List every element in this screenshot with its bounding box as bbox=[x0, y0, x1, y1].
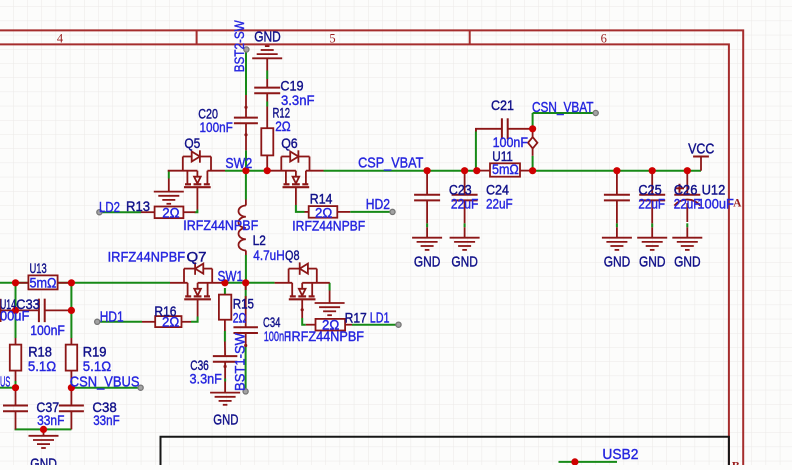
svg-text:GND: GND bbox=[604, 254, 631, 270]
Q5 gate pin bbox=[196, 187, 198, 209]
svg-text:100nF: 100nF bbox=[264, 329, 290, 344]
svg-text:Q6: Q6 bbox=[281, 136, 298, 151]
wire CSN_VBAT vertical bbox=[532, 113, 534, 126]
wire R13 to Q5 gate corner bbox=[195, 210, 198, 213]
svg-text:R13: R13 bbox=[126, 199, 150, 214]
svg-text:US: US bbox=[0, 375, 10, 391]
junction dot C33 left bbox=[12, 307, 19, 314]
Q8 gate pin end dot bbox=[301, 308, 304, 311]
svg-text:4: 4 bbox=[57, 31, 64, 45]
ground symbol under C23 bbox=[412, 237, 442, 239]
svg-text:C34: C34 bbox=[263, 315, 281, 330]
wire U13 left vertical bbox=[15, 283, 17, 338]
svg-text:4.7uH: 4.7uH bbox=[253, 248, 284, 263]
C20 pin end dot bbox=[244, 106, 247, 109]
svg-text:Q5: Q5 bbox=[184, 136, 200, 151]
svg-text:6: 6 bbox=[601, 31, 607, 45]
wire CSN after U11 to VCC corner bbox=[531, 170, 701, 172]
wire C21 left vertical bbox=[475, 132, 477, 171]
svg-text:LD2: LD2 bbox=[99, 200, 120, 216]
capacitor C34 symbol bbox=[245, 283, 247, 290]
svg-text:C19: C19 bbox=[280, 78, 303, 93]
svg-text:GND: GND bbox=[451, 254, 478, 270]
wire C20 lower dash bbox=[245, 150, 247, 170]
capacitor C25 symbol bbox=[616, 171, 618, 195]
svg-text:2Ω: 2Ω bbox=[322, 318, 339, 333]
C36 pin end dot bbox=[224, 365, 227, 368]
svg-text:100nF: 100nF bbox=[493, 135, 528, 150]
wire C19 to R12 dash bbox=[266, 102, 268, 107]
wire C26 dash bbox=[651, 223, 653, 227]
wire Q8 gate corner to R17 bbox=[302, 318, 306, 325]
junction dot C21 right bbox=[529, 125, 536, 132]
ground symbol under C36 bbox=[224, 382, 226, 393]
wire HD1 to R16 bbox=[97, 321, 142, 323]
junction dot CSP at C24 bbox=[461, 167, 468, 174]
svg-text:Q7: Q7 bbox=[187, 250, 207, 265]
svg-text:C25: C25 bbox=[638, 182, 661, 197]
wire Q5 gate to ground bbox=[168, 171, 170, 179]
svg-text:C23: C23 bbox=[449, 182, 472, 197]
junction dot VBUS left bbox=[12, 384, 19, 391]
svg-text:L2: L2 bbox=[253, 233, 266, 248]
ground symbol under C24 bbox=[450, 237, 480, 239]
wire SW1 left from U13 bbox=[0, 282, 170, 284]
svg-text:CSN_VBAT: CSN_VBAT bbox=[532, 100, 594, 116]
junction dot at C26 bbox=[649, 167, 656, 174]
resistor R18 symbol bbox=[15, 338, 17, 345]
current sense diamond CSN_VBAT bbox=[532, 129, 534, 137]
svg-text:2Ω: 2Ω bbox=[162, 315, 179, 330]
junction dot bottom ground bbox=[40, 426, 47, 433]
svg-text:R15: R15 bbox=[233, 297, 254, 312]
resistor R17 symbol bbox=[306, 324, 316, 326]
svg-text:BST2-SW: BST2-SW bbox=[231, 20, 247, 73]
junction dot CSP at C21 bbox=[473, 167, 480, 174]
svg-text:C26: C26 bbox=[674, 182, 698, 197]
svg-text:22uF: 22uF bbox=[486, 197, 513, 212]
wire C23 dash bbox=[426, 223, 428, 227]
wire R15 to C36 bbox=[224, 331, 226, 342]
wire BST2-SW vertical bbox=[245, 52, 247, 95]
transistor Q7 IRFZ44NPBF mirrored bbox=[198, 282, 226, 284]
ground symbol at Q5 gate bbox=[168, 179, 170, 192]
svg-text:22uF: 22uF bbox=[451, 197, 479, 212]
wire CSP_VBAT horizontal bbox=[324, 170, 479, 172]
ground flag GND top inverted bbox=[252, 57, 282, 59]
capacitor C33 symbol bbox=[0, 309, 39, 311]
port dot CSN_VBAT bbox=[593, 110, 598, 115]
junction dot SW2 at R12 bbox=[264, 167, 271, 174]
svg-text:LD1: LD1 bbox=[370, 311, 390, 327]
junction dot C33 right bbox=[68, 307, 75, 314]
junction dot USB2 bbox=[571, 458, 578, 465]
svg-text:IRFZ44NPBF: IRFZ44NPBF bbox=[183, 218, 258, 233]
resistor R19 symbol bbox=[70, 338, 72, 345]
svg-text:IRFZ44NPBF: IRFZ44NPBF bbox=[108, 250, 186, 265]
capacitor C36 symbol bbox=[224, 342, 226, 357]
wire U12 dash bbox=[686, 223, 688, 227]
junction dot at U12 VCC bbox=[684, 167, 691, 174]
junction dot CSN_VBUS bbox=[68, 384, 75, 391]
svg-text:5.1Ω: 5.1Ω bbox=[83, 359, 111, 374]
wire U13 right vertical bbox=[70, 283, 72, 338]
wire Q8 source to ground dash bbox=[329, 283, 331, 291]
ground symbol at Q8 source bbox=[329, 291, 331, 304]
capacitor C24 symbol bbox=[464, 171, 466, 195]
resistor R16 symbol bbox=[142, 321, 155, 323]
resistor R14 symbol bbox=[305, 211, 309, 213]
U12 plus sign bbox=[675, 187, 684, 189]
svg-text:00uF: 00uF bbox=[0, 309, 29, 324]
svg-text:Q8: Q8 bbox=[285, 248, 300, 263]
resistor R15 symbol bbox=[224, 294, 226, 296]
wire SW1 to R15 dash bbox=[224, 288, 226, 295]
svg-text:VCC: VCC bbox=[688, 141, 714, 157]
wire C37 C38 to ground bbox=[15, 428, 72, 430]
resistor R12 symbol bbox=[266, 107, 268, 128]
svg-text:2Ω: 2Ω bbox=[162, 206, 179, 221]
polarized capacitor U12 symbol bbox=[686, 171, 688, 195]
port dot BST1-SW bbox=[243, 389, 248, 394]
ground symbol under C25 bbox=[602, 237, 632, 239]
wire SW2 node horizontal bbox=[225, 170, 266, 172]
junction dot CSP at CSN diamond bbox=[529, 167, 536, 174]
junction dot SW2 at C20 bbox=[242, 167, 249, 174]
wire LD2 to R13 bbox=[99, 211, 141, 213]
port dot CSN_VBUS bbox=[138, 385, 143, 390]
svg-text:USB2: USB2 bbox=[602, 447, 638, 463]
wire C34 top dash bbox=[245, 285, 247, 299]
capacitor C38 symbol bbox=[70, 388, 72, 406]
wire R19 to CSN junction bbox=[70, 381, 72, 388]
wire L2 bottom bbox=[245, 255, 247, 283]
ground symbol bottom left bbox=[43, 429, 45, 435]
junction dot at C25 bbox=[613, 167, 620, 174]
wire R16 to Q7 gate corner bbox=[191, 317, 198, 322]
svg-text:HD1: HD1 bbox=[100, 309, 124, 325]
C20 lower pin end dot bbox=[244, 133, 247, 136]
frame tick between column 5 and 6 bbox=[469, 30, 471, 44]
VCC power flag bbox=[700, 157, 702, 171]
junction dot SW1 at R15 bbox=[221, 279, 228, 286]
svg-text:GND: GND bbox=[213, 413, 238, 429]
wire CSN_VBUS bbox=[71, 387, 138, 389]
svg-text:A: A bbox=[733, 198, 742, 210]
wire C25 dash bbox=[616, 223, 618, 227]
wire C34 to BST1-SW port bbox=[245, 346, 247, 390]
junction dot SW1 at L2 bbox=[242, 279, 249, 286]
svg-text:GND: GND bbox=[30, 457, 57, 466]
svg-text:22uF: 22uF bbox=[638, 197, 665, 212]
svg-text:U12: U12 bbox=[702, 182, 726, 197]
svg-text:BST1-SW: BST1-SW bbox=[232, 332, 248, 391]
svg-text:R14: R14 bbox=[310, 192, 333, 207]
resistor shunt U11 symbol bbox=[478, 170, 490, 172]
port dot HD2 bbox=[390, 209, 395, 214]
transistor Q6 IRFZ44NPBF bbox=[266, 170, 296, 172]
svg-text:5mΩ: 5mΩ bbox=[492, 162, 519, 177]
wire USB2 bbox=[559, 461, 618, 463]
svg-text:22uF: 22uF bbox=[674, 197, 701, 212]
svg-text:SW1: SW1 bbox=[218, 269, 244, 285]
wire C36 to ground dash bbox=[224, 379, 226, 382]
ground symbol under C26 bbox=[637, 237, 667, 239]
wire R12 gnd stem dash bbox=[266, 71, 268, 80]
svg-text:100nF: 100nF bbox=[30, 323, 65, 338]
svg-text:100nF: 100nF bbox=[200, 120, 233, 135]
C21 wire corner at CSP dot bbox=[475, 129, 477, 132]
svg-text:5.1Ω: 5.1Ω bbox=[28, 359, 56, 374]
svg-text:2Ω: 2Ω bbox=[275, 119, 291, 134]
junction dot U13 left bbox=[12, 279, 19, 286]
svg-text:33nF: 33nF bbox=[93, 413, 120, 428]
wire R17 to LD1 bbox=[352, 324, 397, 326]
svg-text:IRFZ44NPBF: IRFZ44NPBF bbox=[292, 218, 365, 233]
transistor Q5 IRFZ44NPBF bbox=[168, 170, 198, 172]
capacitor C20 symbol bbox=[245, 95, 247, 118]
capacitor C21 symbol bbox=[476, 129, 502, 132]
junction dot CSP at C23 bbox=[424, 167, 431, 174]
wire R14 to HD2 bbox=[350, 211, 390, 213]
port dot BST2-SW bbox=[244, 47, 249, 52]
port dot HD1 bbox=[95, 319, 100, 324]
svg-text:5mΩ: 5mΩ bbox=[30, 276, 57, 291]
wire L2 top bbox=[245, 171, 247, 200]
USB2 component box outline bbox=[161, 437, 729, 465]
resistor shunt U13 symbol bbox=[16, 282, 29, 284]
svg-text:2Ω: 2Ω bbox=[233, 311, 247, 326]
svg-text:C24: C24 bbox=[486, 182, 510, 197]
svg-text:B: B bbox=[732, 458, 740, 465]
frame tick between column 4 and 5 bbox=[196, 30, 198, 44]
Q6 gate pin bbox=[295, 187, 297, 205]
inductor L2 symbol bbox=[245, 200, 247, 206]
resistor R13 symbol bbox=[141, 211, 155, 213]
ground symbol under U12 bbox=[672, 237, 702, 239]
capacitor C23 symbol bbox=[426, 171, 428, 195]
svg-text:100uF: 100uF bbox=[697, 197, 734, 212]
wire CSN_VBAT horizontal bbox=[533, 112, 594, 114]
svg-text:GND: GND bbox=[254, 29, 281, 45]
svg-text:R17: R17 bbox=[345, 311, 367, 326]
wire C24 dash bbox=[464, 223, 466, 227]
svg-text:33nF: 33nF bbox=[37, 413, 64, 428]
wire R18 to CSN junction bbox=[15, 381, 17, 388]
wire SW1 between Q7 and Q8 bbox=[227, 282, 274, 284]
port dot LD2 bbox=[97, 210, 102, 215]
svg-text:HD2: HD2 bbox=[366, 197, 390, 213]
Q7 gate pin bbox=[197, 299, 199, 316]
svg-text:U13: U13 bbox=[30, 261, 47, 276]
Q8 gate pin bbox=[301, 300, 303, 318]
capacitor U14 partial at left edge bbox=[0, 299, 2, 322]
capacitor C19 symbol bbox=[266, 79, 268, 88]
wire VBUS stub left bbox=[0, 387, 16, 389]
wire Q6 gate corner to R14 bbox=[296, 205, 305, 212]
svg-text:C21: C21 bbox=[491, 98, 514, 113]
svg-text:SW2: SW2 bbox=[225, 156, 252, 172]
svg-text:CSN_VBUS: CSN_VBUS bbox=[70, 375, 140, 391]
capacitor C26 symbol bbox=[651, 171, 653, 195]
svg-text:GND: GND bbox=[414, 254, 441, 270]
svg-text:GND: GND bbox=[674, 254, 701, 270]
wire diamond to CSP wire bbox=[532, 156, 534, 171]
svg-text:CSP_VBAT: CSP_VBAT bbox=[358, 156, 423, 172]
port dot LD1 bbox=[396, 322, 401, 327]
transistor Q8 IRFZ44NPBF mirrored bbox=[302, 282, 330, 284]
svg-text:R19: R19 bbox=[83, 345, 107, 360]
C34 pin end dot bbox=[244, 344, 247, 347]
svg-text:R18: R18 bbox=[28, 345, 52, 360]
capacitor C37 symbol bbox=[15, 388, 17, 406]
svg-text:5: 5 bbox=[329, 31, 335, 45]
svg-text:GND: GND bbox=[639, 254, 666, 270]
svg-text:3.3nF: 3.3nF bbox=[190, 372, 222, 387]
junction dot U13 right bbox=[68, 279, 75, 286]
